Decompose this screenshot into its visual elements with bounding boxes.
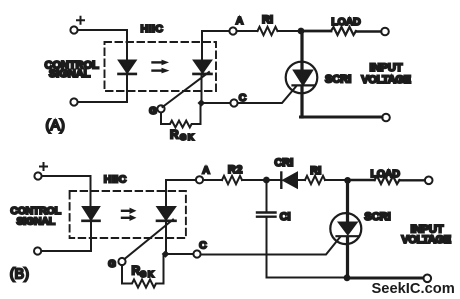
svg-text:GK: GK bbox=[180, 132, 195, 142]
photo-SCR A bbox=[163, 31, 212, 107]
junction dot bottom B bbox=[344, 274, 351, 281]
wire R1 to junction B bbox=[325, 179, 345, 181]
terminal bottom-right B bbox=[424, 275, 432, 283]
svg-text:SCRI: SCRI bbox=[364, 211, 390, 223]
svg-text:A: A bbox=[202, 165, 210, 177]
svg-text:A: A bbox=[236, 15, 244, 27]
gate wire to SCR1 B bbox=[201, 237, 340, 254]
label RGK B bbox=[132, 264, 156, 280]
terminal G A bbox=[157, 105, 164, 112]
wire A to R1 bbox=[237, 30, 258, 32]
svg-text:GK: GK bbox=[140, 269, 155, 279]
wire anode row A bbox=[202, 30, 229, 32]
resistor R2 B bbox=[222, 176, 242, 184]
svg-text:G: G bbox=[149, 106, 157, 117]
terminal lower-left B bbox=[34, 247, 41, 254]
terminal bottom-right A bbox=[382, 114, 390, 122]
LED B bbox=[83, 207, 100, 221]
terminal top-right B bbox=[425, 177, 433, 185]
terminal A node A bbox=[229, 27, 236, 34]
terminal G B bbox=[118, 258, 125, 265]
svg-text:G: G bbox=[108, 259, 116, 270]
light arrows B bbox=[122, 208, 137, 221]
svg-text:LOAD: LOAD bbox=[331, 16, 361, 28]
wire CR1 to R1 B bbox=[297, 179, 306, 181]
bottom return wire from C1 bbox=[267, 277, 345, 279]
svg-text:HIIC: HIIC bbox=[104, 174, 127, 186]
svg-text:R2: R2 bbox=[228, 164, 243, 176]
resistor R1 A bbox=[258, 27, 278, 35]
svg-text:C: C bbox=[199, 239, 207, 251]
wire A to R2 bbox=[203, 179, 222, 181]
svg-text:R: R bbox=[170, 128, 179, 142]
wire from plus terminal to LED anode B bbox=[42, 176, 91, 207]
label RGK A bbox=[170, 128, 195, 143]
svg-text:(A): (A) bbox=[46, 118, 65, 134]
wire LOAD to right terminal A bbox=[356, 30, 381, 32]
junction node B-cathode bbox=[162, 250, 170, 258]
svg-text:INPUT: INPUT bbox=[370, 62, 403, 74]
svg-text:RI: RI bbox=[310, 165, 321, 177]
terminal plus A bbox=[70, 17, 84, 34]
svg-text:VOLTAGE: VOLTAGE bbox=[361, 74, 410, 86]
junction dot SCR top B bbox=[344, 177, 351, 184]
photo-SCR B bbox=[125, 180, 176, 259]
junction node A-cathode bbox=[198, 99, 206, 107]
svg-text:SeekIC.com: SeekIC.com bbox=[372, 281, 455, 297]
resistor R1 B bbox=[305, 176, 325, 184]
label CONTROL SIGNAL B bbox=[10, 205, 61, 228]
wire LED cathode to lower terminal B bbox=[42, 222, 92, 251]
terminal plus B bbox=[34, 163, 47, 180]
wire node to C terminal B bbox=[169, 253, 194, 255]
wire R1 to junction A bbox=[278, 30, 299, 32]
SCR1 B anode wire (thick) bbox=[346, 180, 349, 223]
SCR1 A cathode wire (thick) bbox=[300, 86, 303, 117]
wire anode row B bbox=[166, 179, 196, 181]
wire junction to LOAD B bbox=[348, 179, 375, 182]
svg-text:CRI: CRI bbox=[274, 157, 293, 169]
terminal lower-left A bbox=[70, 98, 77, 105]
resistor RGK A bbox=[161, 106, 201, 127]
resistor LOAD A bbox=[331, 27, 356, 35]
wire from plus terminal to LED anode bbox=[78, 30, 127, 61]
label CONTROL SIGNAL A bbox=[45, 59, 100, 80]
opto-coupler U1 dashed box A bbox=[105, 42, 217, 91]
svg-text:CI: CI bbox=[280, 211, 291, 223]
opto-coupler U2 dashed box B bbox=[70, 191, 186, 238]
SCR1 B bbox=[330, 213, 361, 244]
wire node to C terminal A bbox=[205, 102, 230, 104]
label INPUT VOLTAGE B bbox=[401, 224, 450, 246]
capacitor C1 bbox=[257, 180, 276, 278]
bottom wire B (thick) bbox=[347, 277, 423, 280]
SCR1 A anode wire (thick) bbox=[300, 31, 303, 71]
svg-text:SIGNAL: SIGNAL bbox=[49, 68, 91, 80]
svg-text:SCRI: SCRI bbox=[325, 74, 351, 86]
label INPUT VOLTAGE A bbox=[361, 62, 410, 86]
svg-text:LOAD: LOAD bbox=[371, 168, 401, 180]
wire junction to LOAD A bbox=[301, 30, 331, 33]
terminal C B bbox=[193, 250, 200, 257]
junction dot C1 top B bbox=[263, 177, 270, 184]
resistor LOAD B bbox=[375, 176, 400, 184]
gate wire to SCR1 A bbox=[238, 87, 296, 104]
wire LOAD to right terminal B bbox=[400, 179, 425, 181]
SCR1 A bbox=[286, 62, 318, 94]
terminal A node B bbox=[196, 176, 203, 183]
bottom wire A (thick) bbox=[301, 116, 383, 119]
light arrows A bbox=[153, 60, 170, 74]
wire LED cathode to lower terminal A bbox=[78, 75, 127, 103]
resistor RGK B bbox=[122, 254, 164, 288]
svg-text:VOLTAGE: VOLTAGE bbox=[401, 234, 450, 246]
LED A bbox=[119, 61, 136, 74]
junction dot top A bbox=[298, 28, 305, 35]
svg-text:HIIC: HIIC bbox=[141, 23, 164, 35]
terminal C A bbox=[230, 99, 237, 106]
SCR1 B cathode wire (thick) bbox=[346, 237, 349, 278]
diode CR1 bbox=[281, 173, 297, 188]
terminal top-right A bbox=[381, 28, 389, 36]
svg-text:(B): (B) bbox=[10, 267, 29, 283]
wire R2 to junction B bbox=[242, 179, 264, 181]
wire junction to CR1 bbox=[267, 179, 281, 181]
svg-text:RI: RI bbox=[262, 14, 273, 26]
svg-text:SIGNAL: SIGNAL bbox=[16, 216, 55, 228]
